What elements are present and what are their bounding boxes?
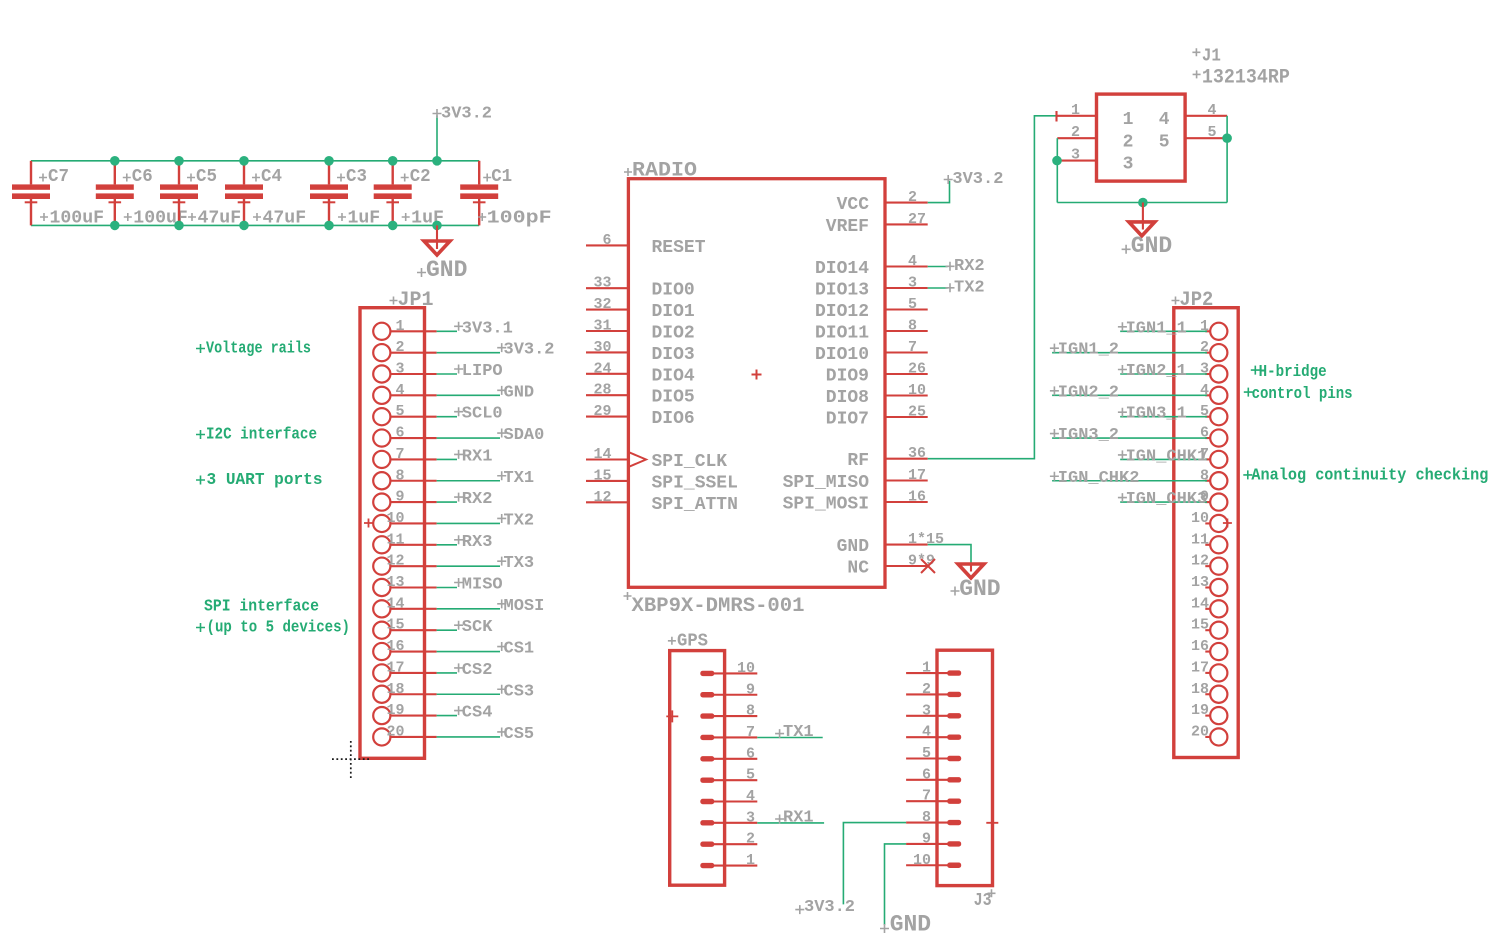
node junction J1 pin 3 xyxy=(1052,156,1062,166)
pin 4 DIO14 (RADIO right) xyxy=(815,253,928,279)
connector GPS box outline xyxy=(670,651,725,886)
no-connect X on pin NC xyxy=(921,559,935,573)
net label TX1 xyxy=(497,469,534,488)
pin 26 DIO9 (RADIO right) xyxy=(826,361,928,387)
svg-text:GND: GND xyxy=(837,537,870,557)
svg-text:SCL0: SCL0 xyxy=(462,405,503,424)
connector JP1 box outline xyxy=(360,308,425,759)
ground symbol (RADIO) xyxy=(958,564,984,578)
svg-text:DIO9: DIO9 xyxy=(826,367,869,387)
pin 8 (JP1) xyxy=(373,467,436,489)
net label CS4 xyxy=(454,704,492,723)
radio module U RADIO box outline xyxy=(628,179,885,588)
svg-text:C7: C7 xyxy=(48,167,69,187)
pin 1 (JP2) xyxy=(1200,318,1227,340)
pin 14 (JP2) xyxy=(1191,595,1227,617)
svg-text:IGN2_1: IGN2_1 xyxy=(1126,362,1187,381)
wire J3 pin 8 to 3V3.2 xyxy=(843,823,906,905)
pin 20 (JP1) xyxy=(373,723,436,745)
svg-text:1: 1 xyxy=(395,318,404,335)
wire JP1 pin 14 net MOSI xyxy=(437,608,500,610)
wire JP2 pin 2 net IGN1_2 xyxy=(1052,352,1207,354)
svg-text:NC: NC xyxy=(847,559,869,579)
wire GND bottom rail of capacitor bank xyxy=(31,224,479,226)
pin 29 DIO6 (RADIO left) xyxy=(586,403,695,429)
svg-text:36: 36 xyxy=(908,445,926,462)
svg-text:10: 10 xyxy=(908,382,926,399)
svg-text:2: 2 xyxy=(1123,132,1134,152)
pin 10 (J3) xyxy=(906,852,961,869)
svg-text:7: 7 xyxy=(922,788,931,805)
pin 5 (JP1) xyxy=(373,403,436,425)
capacitor C4 xyxy=(225,161,263,226)
pin 7 DIO10 (RADIO right) xyxy=(815,339,928,365)
svg-text:27: 27 xyxy=(908,211,926,228)
svg-text:6: 6 xyxy=(922,766,931,783)
connector JP2 box outline xyxy=(1174,308,1238,758)
svg-text:25: 25 xyxy=(908,404,926,421)
wire JP1 pin 7 net RX1 xyxy=(437,458,457,460)
pin 2 (GPS) xyxy=(700,831,757,848)
wire J1 ground bus bottom xyxy=(1057,202,1227,204)
clock symbol on pin SPI_CLK xyxy=(628,452,646,467)
net label IGN1_1 xyxy=(1118,319,1187,338)
svg-text:5: 5 xyxy=(1200,403,1209,420)
svg-text:CS2: CS2 xyxy=(462,661,493,680)
node junction J1 ground stub xyxy=(1138,198,1148,208)
label RADIO xyxy=(624,160,697,183)
svg-text:DIO7: DIO7 xyxy=(826,410,869,430)
wire RADIO GND pin to ground xyxy=(928,545,971,564)
svg-text:(up to 5 devices): (up to 5 devices) xyxy=(207,618,351,637)
svg-text:28: 28 xyxy=(593,382,611,399)
svg-text:1: 1 xyxy=(1200,318,1209,335)
svg-text:3V3.2: 3V3.2 xyxy=(804,898,855,917)
svg-text:DIO4: DIO4 xyxy=(652,366,695,386)
svg-text:C4: C4 xyxy=(261,167,282,187)
pin 4 (J1 right) xyxy=(1159,102,1227,130)
annotation control pins xyxy=(1244,384,1353,403)
svg-text:3: 3 xyxy=(1200,361,1209,378)
svg-text:CS5: CS5 xyxy=(504,725,535,744)
svg-text:1: 1 xyxy=(746,852,755,869)
svg-text:29: 29 xyxy=(593,403,611,420)
svg-text:12: 12 xyxy=(386,553,404,570)
pin 36 RF (RADIO right) xyxy=(847,445,927,471)
svg-text:SPI interface: SPI interface xyxy=(204,597,319,616)
label C7 xyxy=(39,167,69,187)
wire JP1 pin 10 net TX2 xyxy=(437,522,500,524)
wire J3 pin 9 to GND xyxy=(885,844,907,925)
pin 4 (J3) xyxy=(906,724,961,741)
svg-text:3: 3 xyxy=(746,809,755,826)
svg-text:100uF: 100uF xyxy=(50,209,105,229)
label JP2 xyxy=(1172,289,1214,312)
capacitor C2 xyxy=(374,161,412,226)
net label RX1 xyxy=(454,447,492,466)
svg-text:CS1: CS1 xyxy=(504,640,535,659)
svg-text:2: 2 xyxy=(908,189,917,206)
svg-text:31: 31 xyxy=(593,318,611,335)
annotation (up to 5 devices) xyxy=(196,618,350,637)
svg-text:3: 3 xyxy=(908,275,917,292)
net label CS5 xyxy=(497,725,534,744)
origin marker RADIO xyxy=(752,370,762,380)
pin 16 (JP1) xyxy=(373,638,436,660)
pin 32 DIO1 (RADIO left) xyxy=(586,296,695,322)
svg-text:5: 5 xyxy=(395,403,404,420)
label C6 xyxy=(123,167,153,187)
pin 16 SPI_MOSI (RADIO right) xyxy=(783,489,928,515)
wire JP1 pin 5 net SCL0 xyxy=(437,416,457,418)
ground label GND (RADIO) xyxy=(951,576,1001,602)
svg-text:RESET: RESET xyxy=(652,238,706,258)
svg-text:1: 1 xyxy=(1123,110,1134,130)
ground symbol (cap bank) xyxy=(424,225,450,255)
net label IGN3_2 xyxy=(1050,426,1119,445)
svg-text:16: 16 xyxy=(908,489,926,506)
svg-text:16: 16 xyxy=(386,638,404,655)
pin 7 (JP2) xyxy=(1200,446,1227,468)
pin 18 (JP1) xyxy=(373,681,436,703)
svg-text:JP2: JP2 xyxy=(1179,289,1213,312)
wire 3V3.2 stub to supply label xyxy=(436,115,438,160)
svg-text:14: 14 xyxy=(386,595,404,612)
svg-text:10: 10 xyxy=(386,510,404,527)
net label RX1 xyxy=(775,809,814,828)
svg-text:TX2: TX2 xyxy=(954,279,985,298)
node junction J1 pin 5 xyxy=(1222,133,1232,143)
svg-text:4: 4 xyxy=(1159,110,1170,130)
svg-text:DIO14: DIO14 xyxy=(815,259,869,279)
pin 6 (J3) xyxy=(906,766,961,783)
svg-text:5: 5 xyxy=(908,296,917,313)
svg-text:DIO10: DIO10 xyxy=(815,345,869,365)
net label IGN1_2 xyxy=(1050,341,1119,360)
net label SCL0 xyxy=(454,405,503,424)
svg-text:100pF: 100pF xyxy=(487,209,552,229)
pin 18 (JP2) xyxy=(1191,681,1227,703)
wire JP1 pin 4 net GND xyxy=(437,394,500,396)
pin 1 (J1 left) xyxy=(1057,102,1133,130)
pin 15 SPI_SSEL (RADIO left) xyxy=(586,467,738,493)
pin 5 DIO12 (RADIO right) xyxy=(815,296,928,322)
wire end tick at J1 pin 1 xyxy=(1055,111,1057,122)
svg-text:SDA0: SDA0 xyxy=(504,426,545,445)
pin 14 (JP1) xyxy=(373,595,436,617)
supply label 3V3.2 (J3) xyxy=(795,898,855,917)
svg-text:DIO5: DIO5 xyxy=(652,388,695,408)
net label IGN3_1 xyxy=(1118,405,1187,424)
svg-text:DIO1: DIO1 xyxy=(652,302,695,322)
pin 14 SPI_CLK (RADIO left) xyxy=(586,446,727,472)
net label IGN_CHK3 xyxy=(1118,490,1207,509)
svg-text:32: 32 xyxy=(593,296,611,313)
pin 31 DIO2 (RADIO left) xyxy=(586,318,695,344)
svg-text:17: 17 xyxy=(1191,659,1209,676)
pin 10 (JP1) xyxy=(373,510,436,532)
svg-text:18: 18 xyxy=(1191,681,1209,698)
svg-text:3: 3 xyxy=(922,702,931,719)
svg-text:1: 1 xyxy=(1071,102,1080,119)
ground symbol (J1) xyxy=(1129,203,1155,236)
pin 3 (JP1) xyxy=(373,361,436,383)
pin 30 DIO3 (RADIO left) xyxy=(586,339,695,365)
svg-text:SPI_MISO: SPI_MISO xyxy=(783,473,870,493)
svg-text:11: 11 xyxy=(1191,531,1209,548)
svg-text:15: 15 xyxy=(593,467,611,484)
annotation 3 UART ports xyxy=(196,470,323,489)
svg-text:RX1: RX1 xyxy=(462,447,493,466)
wire JP1 pin 11 net RX3 xyxy=(437,544,457,546)
pin 17 SPI_MISO (RADIO right) xyxy=(783,467,928,493)
svg-text:IGN_CHK3: IGN_CHK3 xyxy=(1126,490,1208,509)
svg-text:26: 26 xyxy=(908,361,926,378)
svg-text:CS3: CS3 xyxy=(504,682,535,701)
pin 1 (GPS) xyxy=(700,852,757,869)
net label RX2 xyxy=(946,257,985,276)
svg-text:GND: GND xyxy=(1131,233,1172,259)
svg-text:5: 5 xyxy=(746,767,755,784)
node junctions on GND bottom rail xyxy=(110,221,442,231)
svg-text:Voltage rails: Voltage rails xyxy=(206,339,311,358)
label C2 xyxy=(401,167,431,187)
svg-text:3: 3 xyxy=(395,361,404,378)
svg-text:C6: C6 xyxy=(132,167,153,187)
wire JP1 pin 12 net TX3 xyxy=(437,565,500,567)
pin 1 (JP1) xyxy=(373,318,436,340)
value label 1uF (C3) xyxy=(338,209,380,229)
svg-text:RX2: RX2 xyxy=(462,490,493,509)
net label GND xyxy=(497,383,534,402)
svg-text:13: 13 xyxy=(1191,574,1209,591)
svg-text:1uF: 1uF xyxy=(348,209,381,229)
wire VCC to 3V3.2 xyxy=(928,181,950,203)
svg-text:2: 2 xyxy=(395,339,404,356)
ground label GND (J3) xyxy=(880,912,931,938)
wire JP2 pin 1 net IGN1_1 xyxy=(1120,330,1207,332)
svg-text:RX1: RX1 xyxy=(783,809,814,828)
pin 9 (JP1) xyxy=(373,489,436,511)
label J1 xyxy=(1192,47,1221,67)
svg-text:12: 12 xyxy=(593,489,611,506)
pin 12 (JP2) xyxy=(1191,553,1227,575)
pin 9*9 NC (RADIO right) xyxy=(847,553,935,579)
net label TX2 xyxy=(946,279,985,298)
svg-text:2: 2 xyxy=(1200,339,1209,356)
net label CS1 xyxy=(497,640,534,659)
svg-text:GND: GND xyxy=(959,576,1000,602)
svg-text:12: 12 xyxy=(1191,553,1209,570)
net label SDA0 xyxy=(497,426,544,445)
node junctions on 3V3.2 top rail xyxy=(110,156,442,166)
wire JP2 pin 6 net IGN3_2 xyxy=(1052,437,1207,439)
pin 15 (JP2) xyxy=(1191,617,1227,639)
svg-text:11: 11 xyxy=(386,531,404,548)
svg-text:19: 19 xyxy=(386,702,404,719)
svg-text:IGN_CHK1: IGN_CHK1 xyxy=(1126,447,1208,466)
svg-text:8: 8 xyxy=(746,703,755,720)
pin 3 DIO13 (RADIO right) xyxy=(815,275,928,301)
svg-text:GND: GND xyxy=(504,383,535,402)
svg-text:6: 6 xyxy=(1200,425,1209,442)
pin 6 (GPS) xyxy=(700,745,757,762)
svg-text:5: 5 xyxy=(1208,124,1217,141)
svg-text:MISO: MISO xyxy=(462,576,503,595)
ground lead (RADIO) xyxy=(970,564,972,572)
pin 11 (JP1) xyxy=(373,531,436,553)
net label RX3 xyxy=(454,533,492,552)
pin 2 (JP2) xyxy=(1200,339,1227,361)
net label IGN_CHK1 xyxy=(1118,447,1207,466)
svg-text:7: 7 xyxy=(908,339,917,356)
value label 132134RP (J1) xyxy=(1193,67,1290,90)
svg-text:3: 3 xyxy=(1123,155,1134,175)
wire JP1 pin 2 net 3V3.2 xyxy=(437,352,500,354)
svg-text:TX2: TX2 xyxy=(504,511,535,530)
svg-text:DIO8: DIO8 xyxy=(826,388,869,408)
pin 5 (GPS) xyxy=(700,767,757,784)
svg-text:DIO6: DIO6 xyxy=(652,409,695,429)
wire DIO13 to TX2 xyxy=(928,287,948,289)
pin 19 (JP2) xyxy=(1191,702,1227,724)
svg-text:SPI_SSEL: SPI_SSEL xyxy=(652,473,738,493)
svg-text:IGN_CHK2: IGN_CHK2 xyxy=(1058,469,1140,488)
svg-text:18: 18 xyxy=(386,681,404,698)
net label 3V3.2 xyxy=(497,341,554,360)
svg-text:VCC: VCC xyxy=(837,195,870,215)
svg-text:RX2: RX2 xyxy=(954,257,985,276)
pin 3 (J3) xyxy=(906,702,961,719)
wire J1 pin 2/3 to ground bus xyxy=(1056,138,1058,202)
wire JP2 pin 3 net IGN2_1 xyxy=(1120,373,1207,375)
svg-text:DIO3: DIO3 xyxy=(652,345,695,365)
svg-text:DIO13: DIO13 xyxy=(815,281,869,301)
pin 16 (JP2) xyxy=(1191,638,1227,660)
wire JP1 pin 16 net CS1 xyxy=(437,651,500,653)
svg-text:9: 9 xyxy=(922,830,931,847)
svg-text:3V3.2: 3V3.2 xyxy=(952,170,1003,189)
value label XBP9X-DMRS-001 (RADIO) xyxy=(624,592,805,618)
pin 13 (JP1) xyxy=(373,574,436,596)
svg-text:3V3.1: 3V3.1 xyxy=(462,319,513,338)
net label TX1 xyxy=(775,723,814,742)
net label 3V3.1 xyxy=(454,319,513,338)
pin 8 (J3) xyxy=(906,809,961,826)
pin 5 (J1 right) xyxy=(1159,124,1227,152)
svg-text:2: 2 xyxy=(746,831,755,848)
svg-text:CS4: CS4 xyxy=(462,704,493,723)
wire JP2 pin 4 net IGN2_2 xyxy=(1052,394,1207,396)
svg-text:47uF: 47uF xyxy=(198,209,242,229)
svg-text:IGN2_2: IGN2_2 xyxy=(1058,383,1119,402)
pin 6 (JP1) xyxy=(373,425,436,447)
label GPS xyxy=(668,632,708,652)
svg-text:control pins: control pins xyxy=(1252,384,1353,403)
pin 10 (JP2) xyxy=(1191,510,1227,532)
capacitor C7 xyxy=(12,161,50,226)
svg-text:J1: J1 xyxy=(1202,47,1221,67)
ground label GND (cap bank) xyxy=(417,257,467,283)
wire JP1 pin 19 net CS4 xyxy=(437,715,457,717)
wire JP1 pin 3 net LIPO xyxy=(437,373,457,375)
svg-text:20: 20 xyxy=(386,723,404,740)
svg-text:10: 10 xyxy=(913,852,931,869)
pin 10 DIO8 (RADIO right) xyxy=(826,382,928,408)
pin 6 (JP2) xyxy=(1200,425,1227,447)
svg-text:GPS: GPS xyxy=(677,632,708,652)
svg-text:MOSI: MOSI xyxy=(504,597,545,616)
svg-text:LIPO: LIPO xyxy=(462,362,503,381)
svg-text:9*9: 9*9 xyxy=(908,553,935,570)
pin 7 (J3) xyxy=(906,788,961,805)
pin 13 (JP2) xyxy=(1191,574,1227,596)
value label 100uF (C6) xyxy=(124,209,188,229)
wire JP1 pin 8 net TX1 xyxy=(437,480,500,482)
svg-text:9: 9 xyxy=(395,489,404,506)
pin 2 (JP1) xyxy=(373,339,436,361)
pin 15 (JP1) xyxy=(373,617,436,639)
pin 17 (JP2) xyxy=(1191,659,1227,681)
svg-text:14: 14 xyxy=(593,446,611,463)
pin 8 (GPS) xyxy=(700,703,757,720)
capacitor C6 xyxy=(96,161,134,226)
net label LIPO xyxy=(454,362,503,381)
label JP1 xyxy=(390,289,434,312)
svg-text:GND: GND xyxy=(890,912,931,938)
wire DIO14 to RX2 xyxy=(928,266,948,268)
svg-text:SPI_ATTN: SPI_ATTN xyxy=(652,495,738,515)
pin 12 SPI_ATTN (RADIO left) xyxy=(586,489,738,515)
wire JP1 pin 1 net 3V3.1 xyxy=(437,330,457,332)
pin 5 (JP2) xyxy=(1200,403,1227,425)
pin 28 DIO5 (RADIO left) xyxy=(586,382,695,408)
annotation Analog continuity checking xyxy=(1243,465,1488,484)
svg-text:JP1: JP1 xyxy=(398,289,434,312)
svg-text:13: 13 xyxy=(386,574,404,591)
svg-text:RF: RF xyxy=(847,451,869,471)
svg-text:2: 2 xyxy=(922,681,931,698)
svg-text:J3: J3 xyxy=(974,891,992,911)
pin 3 (J1 left) xyxy=(1057,147,1133,175)
svg-text:H-bridge: H-bridge xyxy=(1259,362,1327,381)
pin 19 (JP1) xyxy=(373,702,436,724)
wire JP1 pin 18 net CS3 xyxy=(437,693,500,695)
pin 3 (GPS) xyxy=(700,809,757,826)
pin 9 (GPS) xyxy=(700,681,757,698)
svg-text:7: 7 xyxy=(746,724,755,741)
pin 1 (J3) xyxy=(906,660,961,677)
capacitor C5 xyxy=(160,161,198,226)
origin marker GPS xyxy=(666,710,678,722)
label C4 xyxy=(252,167,282,187)
wire JP2 pin 8 net IGN_CHK2 xyxy=(1052,480,1207,482)
svg-text:10: 10 xyxy=(1191,510,1209,527)
svg-text:5: 5 xyxy=(1159,132,1170,152)
wire RF to J1 pin 1 xyxy=(928,116,1058,459)
pin 5 (J3) xyxy=(906,745,961,762)
net label TX3 xyxy=(497,554,534,573)
svg-text:GND: GND xyxy=(426,257,467,283)
svg-text:VREF: VREF xyxy=(826,217,869,237)
value label 100pF (C1) xyxy=(478,209,552,229)
net label CS3 xyxy=(497,682,534,701)
capacitor C1 xyxy=(460,161,498,226)
pin 2 (J3) xyxy=(906,681,961,698)
svg-text:24: 24 xyxy=(593,360,611,377)
svg-text:6: 6 xyxy=(395,425,404,442)
svg-text:DIO11: DIO11 xyxy=(815,324,869,344)
